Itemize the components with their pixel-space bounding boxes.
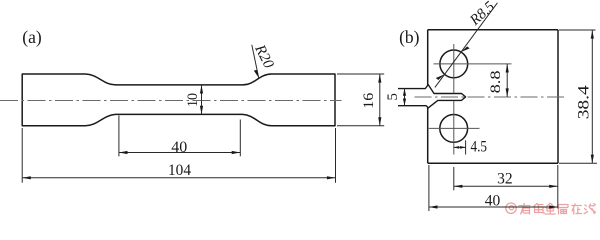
watermark @ glyph xyxy=(506,203,516,213)
dimension 40 (a gauge length) xyxy=(119,116,240,157)
svg-text:10: 10 xyxy=(185,93,201,107)
specimen (b) rectangle top edge xyxy=(428,29,558,31)
hole bottom circle (b) xyxy=(440,114,468,142)
leader R20 (a fillet radius) xyxy=(252,45,259,78)
svg-text:(b): (b) xyxy=(399,27,420,47)
svg-text:5: 5 xyxy=(385,93,401,101)
svg-text:4.5: 4.5 xyxy=(471,139,488,156)
crosshair horizontal top circle + 8.8 extension xyxy=(434,63,512,65)
centerline (a) xyxy=(0,100,342,102)
dimension 16 (a grip width) xyxy=(337,74,384,126)
specimen (b) rectangle right edge xyxy=(557,30,559,164)
svg-text:104: 104 xyxy=(168,162,191,179)
centerline (b) xyxy=(415,96,566,98)
specimen (a) dog-bone outline xyxy=(22,74,335,126)
svg-text:40: 40 xyxy=(171,139,187,156)
dimension 4.5 (hole center to notch tip) xyxy=(465,140,467,154)
leader R8.5 (hole radius) xyxy=(435,3,498,88)
dimension 104 (a overall length) xyxy=(22,128,335,183)
specimen (b) rectangle left edge upper segment xyxy=(427,30,429,85)
crosshair vertical shared upper segment xyxy=(453,44,455,93)
svg-text:40: 40 xyxy=(485,193,501,210)
crosshair horizontal bottom circle xyxy=(429,127,480,129)
notch tab with slit (b) xyxy=(398,85,466,108)
dimension 32 (b hole line to right edge) xyxy=(557,165,559,209)
svg-text:32: 32 xyxy=(497,171,513,188)
svg-text:8.8: 8.8 xyxy=(488,70,504,93)
dimension 8.8 (hole center to centerline) xyxy=(506,64,508,97)
specimen (b) rectangle left edge lower segment xyxy=(427,108,429,164)
watermark CJK strokes 有色金属在线 xyxy=(519,203,596,215)
specimen (b) rectangle bottom edge xyxy=(428,162,558,164)
dimension 5 (notch tab height) xyxy=(404,89,406,106)
dimension 38.4 (b height) xyxy=(559,30,597,163)
svg-text:38.4: 38.4 xyxy=(575,85,592,119)
svg-text:(a): (a) xyxy=(22,27,42,47)
svg-text:16: 16 xyxy=(361,92,377,109)
hole top circle (b) xyxy=(440,50,468,78)
crosshair vertical shared lower segment xyxy=(453,101,455,155)
crosshair vertical extension below rectangle for 32 xyxy=(453,167,455,190)
dimension 40 (b overall width) xyxy=(428,165,430,211)
dimension 10 (a gauge width) xyxy=(201,85,203,115)
